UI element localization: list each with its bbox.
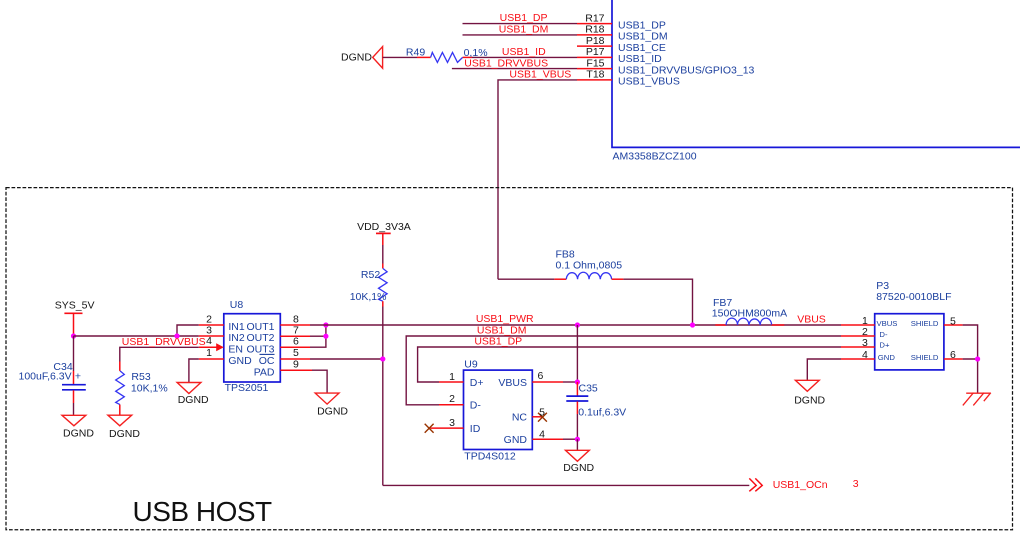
- pin T18: [577, 69, 680, 88]
- svg-text:+: +: [75, 371, 81, 383]
- svg-text:USB1_VBUS: USB1_VBUS: [509, 69, 571, 81]
- svg-text:USB1_DM: USB1_DM: [499, 24, 549, 36]
- ground DGND under P3: [794, 380, 825, 406]
- svg-text:TPS2051: TPS2051: [225, 382, 269, 394]
- wire FB8 to USB1_PWR: [623, 279, 692, 325]
- power flag SYS_5V: [55, 300, 95, 337]
- svg-text:5: 5: [293, 347, 299, 359]
- svg-text:6: 6: [950, 349, 956, 361]
- wire USB1_ID: [472, 46, 577, 58]
- svg-text:3: 3: [862, 337, 868, 349]
- ground earth chassis: [963, 393, 991, 406]
- pin 4 EN with arrow: [199, 335, 243, 355]
- svg-text:USB1_DP: USB1_DP: [618, 19, 666, 31]
- svg-text:U8: U8: [230, 299, 244, 311]
- ground DGND under U8 PAD: [315, 393, 348, 417]
- pin 1 GND: [199, 347, 252, 367]
- wire EN net: [120, 336, 206, 362]
- svg-text:USB1_DRVVBUS/GPIO3_13: USB1_DRVVBUS/GPIO3_13: [618, 64, 755, 76]
- connector P3 87520-0010BLF box: [875, 280, 952, 370]
- pin 1 VBUS: [841, 315, 897, 328]
- pin 2 D-: [439, 393, 481, 411]
- svg-text:ID: ID: [470, 423, 481, 435]
- pin 5 SHIELD: [911, 315, 963, 328]
- svg-text:D+: D+: [879, 341, 890, 350]
- svg-text:DGND: DGND: [178, 394, 209, 406]
- svg-text:10K,1%: 10K,1%: [131, 382, 168, 394]
- wire USB1_DM: [463, 24, 578, 36]
- svg-text:VDD_3V3A: VDD_3V3A: [357, 221, 411, 233]
- dashed border USB HOST block: [6, 188, 1013, 530]
- svg-text:P18: P18: [586, 35, 605, 47]
- svg-text:4: 4: [862, 349, 868, 361]
- wire USB1_VBUS vertical to FB8: [498, 69, 577, 280]
- svg-text:NC: NC: [512, 412, 528, 424]
- ground DGND under C34: [62, 415, 94, 439]
- svg-text:USB1_DM: USB1_DM: [618, 31, 668, 43]
- svg-text:D-: D-: [879, 330, 888, 339]
- svg-text:GND: GND: [504, 434, 528, 446]
- ferrite bead FB8: [498, 249, 623, 280]
- pin 7 OUT2: [246, 325, 310, 345]
- svg-text:DGND: DGND: [341, 52, 372, 64]
- svg-text:SYS_5V: SYS_5V: [55, 300, 95, 312]
- svg-text:AM3358BZCZ100: AM3358BZCZ100: [613, 151, 697, 163]
- wire USB1_DP mid: [418, 336, 841, 382]
- wire GND pin to DGND: [189, 359, 199, 383]
- wire branch to IN1: [177, 325, 199, 336]
- wire R52 to OC and USB1_OCn: [382, 307, 384, 486]
- svg-text:150OHM800mA: 150OHM800mA: [712, 307, 787, 319]
- svg-text:D-: D-: [470, 400, 482, 412]
- svg-text:EN: EN: [228, 343, 243, 355]
- ground DGND under R53: [108, 415, 140, 440]
- op-amp U8 TPS2051 box: [224, 299, 280, 394]
- ground DGND under C35: [563, 450, 594, 474]
- svg-text:GND: GND: [878, 353, 896, 362]
- svg-text:TPD4S012: TPD4S012: [464, 451, 516, 463]
- svg-text:USB1_DRVVBUS: USB1_DRVVBUS: [122, 336, 206, 348]
- svg-text:OC: OC: [259, 355, 275, 367]
- svg-text:USB1_DP: USB1_DP: [500, 12, 548, 24]
- wire USB1_OCn: [383, 478, 859, 491]
- pin R17: [577, 12, 666, 31]
- power flag VDD_3V3A: [357, 221, 411, 245]
- node branch junction: [174, 333, 179, 338]
- pin 1 D+: [439, 371, 484, 389]
- pin 3 ID no-connect: [425, 417, 481, 435]
- svg-text:DGND: DGND: [317, 405, 348, 417]
- wire USB1_PWR: [310, 313, 841, 325]
- wire VDD to R52: [382, 245, 384, 264]
- svg-text:USB1_OCn: USB1_OCn: [773, 479, 828, 491]
- svg-text:D+: D+: [470, 377, 484, 389]
- svg-text:100uF,6.3V: 100uF,6.3V: [19, 371, 72, 383]
- svg-text:R52: R52: [361, 269, 380, 281]
- svg-text:USB1_VBUS: USB1_VBUS: [618, 76, 680, 88]
- svg-text:87520-0010BLF: 87520-0010BLF: [876, 291, 951, 303]
- svg-text:0.1 Ohm,0805: 0.1 Ohm,0805: [556, 260, 623, 272]
- svg-text:DGND: DGND: [794, 395, 825, 407]
- svg-text:6: 6: [293, 336, 299, 348]
- IC U-AM3358 box: [612, 0, 1020, 163]
- wire GND pin to C35: [563, 438, 577, 440]
- svg-text:OUT3: OUT3: [246, 343, 274, 355]
- svg-text:2: 2: [449, 393, 455, 405]
- pin P17: [577, 46, 662, 65]
- pin 4 GND: [841, 349, 895, 362]
- svg-text:5: 5: [950, 315, 956, 327]
- svg-text:VBUS: VBUS: [498, 377, 527, 389]
- node USB1_PWR / C35 junction: [575, 322, 580, 327]
- svg-text:0.1uf,6.3V: 0.1uf,6.3V: [578, 407, 626, 419]
- pin 6 OUT3: [246, 336, 310, 356]
- pin 8 OUT1: [246, 313, 310, 333]
- svg-text:VBUS: VBUS: [797, 314, 826, 326]
- svg-text:VBUS: VBUS: [877, 319, 898, 328]
- svg-text:USB1_DRVVBUS: USB1_DRVVBUS: [464, 58, 548, 70]
- ground DGND top-left: [341, 47, 383, 69]
- ferrite bead FB7: [712, 297, 787, 325]
- svg-text:9: 9: [293, 359, 299, 371]
- pin 5 NC no-connect: [512, 407, 547, 424]
- resistor R49: [406, 46, 488, 62]
- wire USB1_DM mid: [406, 324, 841, 405]
- pin F15: [577, 57, 755, 76]
- svg-text:3: 3: [449, 417, 455, 429]
- svg-text:USB1_ID: USB1_ID: [502, 46, 546, 58]
- pin 3 IN2: [199, 324, 245, 344]
- svg-text:1: 1: [449, 371, 455, 383]
- node FB8 junction: [690, 322, 695, 327]
- wire OUT1/OUT2/OUT3 tie: [310, 322, 329, 347]
- svg-text:P17: P17: [586, 46, 605, 58]
- svg-text:3: 3: [853, 478, 859, 490]
- wire shield tie: [963, 325, 981, 393]
- svg-text:SHIELD: SHIELD: [911, 319, 939, 328]
- svg-text:4: 4: [206, 335, 212, 347]
- node OC junction: [380, 356, 385, 361]
- pin 6 SHIELD: [911, 349, 963, 362]
- svg-text:USB1_DM: USB1_DM: [477, 324, 527, 336]
- wire USB1_DP: [463, 12, 578, 24]
- svg-text:USB1_ID: USB1_ID: [618, 53, 662, 65]
- pin 6 VBUS: [498, 370, 563, 389]
- svg-text:R18: R18: [585, 24, 604, 36]
- svg-text:PAD: PAD: [254, 366, 275, 378]
- svg-text:R53: R53: [131, 371, 150, 383]
- svg-text:10K,1%: 10K,1%: [350, 291, 387, 303]
- svg-text:DGND: DGND: [109, 428, 140, 440]
- pin P18: [577, 35, 666, 54]
- svg-text:USB1_DP: USB1_DP: [474, 336, 522, 348]
- pin 3 D+: [841, 337, 890, 350]
- wire P3 GND to DGND: [807, 359, 841, 380]
- svg-text:U9: U9: [464, 359, 478, 371]
- svg-text:IN2: IN2: [228, 332, 245, 344]
- svg-text:USB HOST: USB HOST: [133, 496, 273, 527]
- pin 2 IN1: [199, 313, 245, 333]
- ground DGND under U8 pin1: [177, 383, 209, 407]
- svg-text:R17: R17: [585, 12, 604, 24]
- wire DGND to R49: [383, 56, 417, 58]
- wire PAD to DGND: [312, 370, 327, 393]
- svg-text:DGND: DGND: [563, 462, 594, 474]
- resistor R53: [116, 362, 168, 416]
- wire VBUS pin to C35: [563, 381, 577, 383]
- svg-text:8: 8: [293, 313, 299, 325]
- svg-text:USB1_CE: USB1_CE: [618, 42, 666, 54]
- svg-text:R49: R49: [406, 46, 425, 58]
- node SYS_5V junction: [71, 333, 76, 338]
- pin 9 PAD: [254, 359, 312, 379]
- wire SYS_5V to U8: [74, 335, 199, 337]
- capacitor C35: [566, 325, 626, 442]
- svg-text:1: 1: [206, 347, 212, 359]
- svg-text:GND: GND: [228, 355, 252, 367]
- svg-text:DGND: DGND: [63, 427, 94, 439]
- svg-text:SHIELD: SHIELD: [911, 353, 939, 362]
- svg-text:OUT2: OUT2: [246, 332, 274, 344]
- svg-text:F15: F15: [586, 57, 604, 69]
- svg-text:5: 5: [539, 407, 545, 419]
- svg-text:6: 6: [538, 370, 544, 382]
- resistor R52: [350, 264, 387, 307]
- svg-text:4: 4: [539, 428, 545, 440]
- pin R18: [577, 24, 668, 43]
- wire OC to R52 vertical: [310, 358, 383, 360]
- wire C35 to DGND: [576, 439, 578, 450]
- pin 5 OC: [259, 347, 310, 367]
- transistor U9 TPD4S012 box: [464, 359, 533, 463]
- svg-text:C35: C35: [579, 382, 598, 394]
- svg-text:T18: T18: [586, 69, 604, 81]
- pin 2 D-: [841, 326, 888, 339]
- wire USB1_DRVVBUS: [452, 58, 577, 70]
- capacitor C34: [19, 336, 86, 415]
- pin 4 GND: [504, 428, 563, 446]
